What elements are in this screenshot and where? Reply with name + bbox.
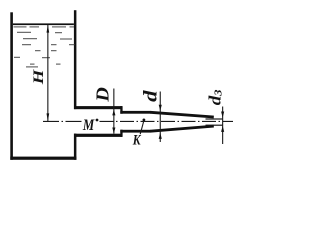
step top (D to d) xyxy=(120,106,122,114)
svg-text:D: D xyxy=(93,87,113,103)
pipe top wall (d section) xyxy=(120,111,151,114)
nozzle top wall xyxy=(150,112,213,117)
pipe top wall (D section) xyxy=(74,106,122,109)
centerline (pipe axis) xyxy=(43,120,82,122)
d3 dimension line xyxy=(222,107,223,145)
H dimension line xyxy=(47,25,48,121)
d dimension arrow up (outside bottom) xyxy=(159,133,162,139)
D dimension arrow up xyxy=(112,109,115,115)
d dimension line xyxy=(160,92,161,143)
K leader line xyxy=(140,121,144,134)
svg-text:d: d xyxy=(139,90,161,102)
jet top edge xyxy=(206,118,223,119)
label d3 xyxy=(205,89,224,105)
water hatch dashes xyxy=(14,26,75,67)
step bottom (D to d) xyxy=(120,130,122,137)
point M dot xyxy=(96,119,99,122)
D dimension line xyxy=(113,89,114,134)
jet bottom edge xyxy=(206,125,223,126)
nozzle bottom wall xyxy=(150,126,213,131)
tank right wall lower xyxy=(74,134,77,160)
H dimension arrow down xyxy=(47,113,50,121)
svg-text:M: M xyxy=(82,117,95,135)
D dimension arrow down xyxy=(112,128,115,134)
water surface line xyxy=(13,23,74,25)
svg-text:H: H xyxy=(30,69,47,86)
tank left wall xyxy=(10,12,13,160)
d3 dimension arrow down (outside top) xyxy=(221,112,224,118)
d3 dimension arrow up (outside bottom) xyxy=(221,126,224,132)
tank bottom wall xyxy=(10,157,76,160)
tank right wall upper xyxy=(74,10,77,109)
H dimension arrow up xyxy=(47,25,50,33)
d dimension arrow down (outside top) xyxy=(159,105,162,111)
pipe bottom wall (d section) xyxy=(120,130,151,133)
pipe bottom wall (D section) xyxy=(74,134,122,137)
point K dot xyxy=(143,119,146,122)
